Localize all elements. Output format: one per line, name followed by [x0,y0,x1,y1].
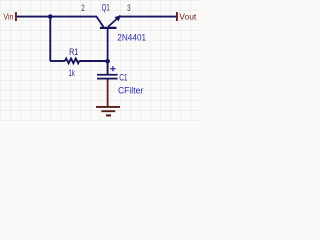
svg-text:1k: 1k [69,68,76,78]
svg-text:CFilter: CFilter [118,85,143,95]
svg-text:Vout: Vout [179,11,197,21]
svg-text:Vin: Vin [3,11,13,21]
svg-text:C1: C1 [119,72,127,82]
svg-text:2: 2 [81,3,85,13]
svg-text:2N4401: 2N4401 [117,32,146,42]
svg-text:3: 3 [127,3,131,13]
svg-text:Q1: Q1 [102,2,110,12]
svg-text:R1: R1 [69,47,78,57]
